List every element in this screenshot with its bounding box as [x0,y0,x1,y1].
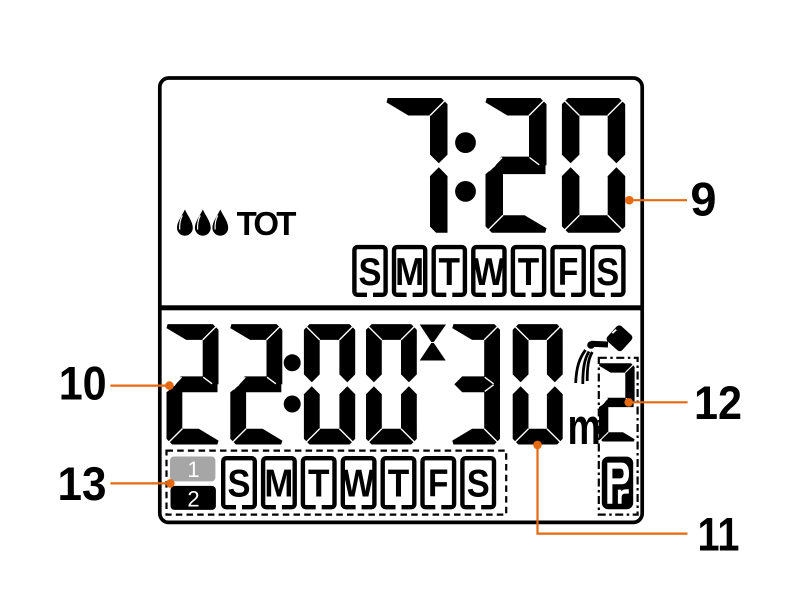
svg-text:10: 10 [59,356,107,409]
svg-text:W: W [343,462,375,505]
svg-text:T: T [439,251,461,294]
svg-text:S: S [467,462,490,505]
svg-text:9: 9 [690,173,716,226]
svg-text:TOT: TOT [237,205,297,242]
svg-text:M: M [264,462,293,505]
svg-text:T: T [388,462,410,505]
svg-text:1: 1 [187,457,199,482]
svg-text:S: S [228,462,251,505]
svg-text:11: 11 [698,507,740,560]
svg-text:F: F [428,462,449,505]
svg-text:T: T [308,462,330,505]
svg-text:W: W [473,251,505,294]
svg-text:S: S [596,251,619,294]
svg-text:13: 13 [58,457,107,510]
svg-text:S: S [359,251,382,294]
svg-text:12: 12 [694,376,742,429]
svg-text:m: m [568,397,601,455]
svg-text:2: 2 [187,486,199,511]
svg-text:T: T [518,251,540,294]
svg-text:F: F [558,251,579,294]
svg-text:M: M [395,251,424,294]
